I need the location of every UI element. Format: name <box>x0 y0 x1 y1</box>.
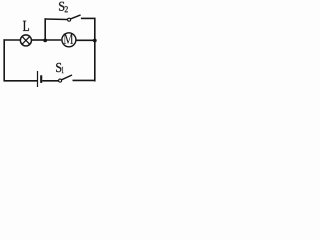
lamp L cross <box>22 37 30 45</box>
junction B dot <box>93 39 97 43</box>
wire motor to junction B <box>76 39 94 41</box>
wire S1 to right vertical <box>73 79 96 81</box>
label S2 subscript 2 <box>65 6 68 12</box>
wire top branch left segment to switch S2 <box>45 18 68 21</box>
motor M circle <box>62 33 76 47</box>
wire right vertical <box>94 18 96 82</box>
motor letter M <box>64 34 74 44</box>
label S1 subscript 1 <box>62 67 64 73</box>
battery long plate (positive) <box>37 71 39 87</box>
switch S1 blade <box>62 75 73 80</box>
lamp L circle <box>20 35 31 46</box>
wire middle row: left vertical to lamp <box>4 39 21 41</box>
wire left vertical (battery loop left side) <box>3 39 5 81</box>
wire bottom: left corner to battery <box>4 80 38 82</box>
wire junction A to motor <box>45 39 61 41</box>
junction A dot <box>43 39 47 43</box>
label S2 letter S <box>59 2 64 11</box>
switch S2 pivot circle <box>68 18 71 21</box>
switch S2 blade <box>71 15 81 19</box>
label L <box>23 21 29 31</box>
wire top branch right segment from S2 to right vertical <box>81 17 96 19</box>
wire lamp to junction A <box>32 39 46 41</box>
wire riser junction A up to top branch <box>44 18 46 40</box>
label S1 letter S <box>56 63 61 72</box>
battery short plate (negative) <box>40 75 42 83</box>
switch S1 pivot circle <box>59 79 62 82</box>
background <box>0 0 105 92</box>
wire battery to switch S1 <box>42 80 58 82</box>
